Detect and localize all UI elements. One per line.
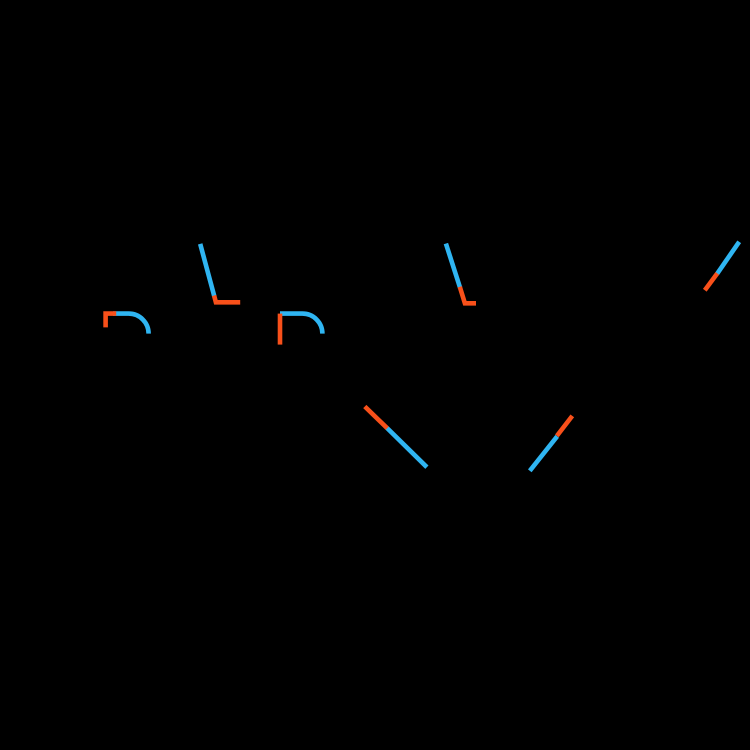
wire W6 diagonal segment (orange part): [557, 416, 572, 436]
wire W2 bent segment (blue part): [200, 244, 214, 297]
wire W7 diagonal segment (blue part): [717, 242, 739, 274]
wire W6 diagonal segment (blue part): [530, 436, 557, 471]
wire W1 rounded-corner segment (orange part): [106, 314, 117, 328]
wire W7 diagonal segment (orange part): [705, 273, 718, 290]
wire W3 rounded-corner segment (orange part): [278, 314, 283, 345]
wire W3 rounded-corner segment (blue part): [280, 314, 322, 334]
wire W1 rounded-corner segment (blue part): [113, 314, 149, 334]
wire W5 diagonal segment (orange part): [365, 407, 387, 429]
wire W4 bent segment (blue part): [446, 244, 460, 288]
wire W2 bent segment (orange part): [214, 296, 240, 303]
wire W4 bent segment (orange part): [460, 287, 476, 304]
wire W5 diagonal segment (blue part): [387, 428, 427, 467]
